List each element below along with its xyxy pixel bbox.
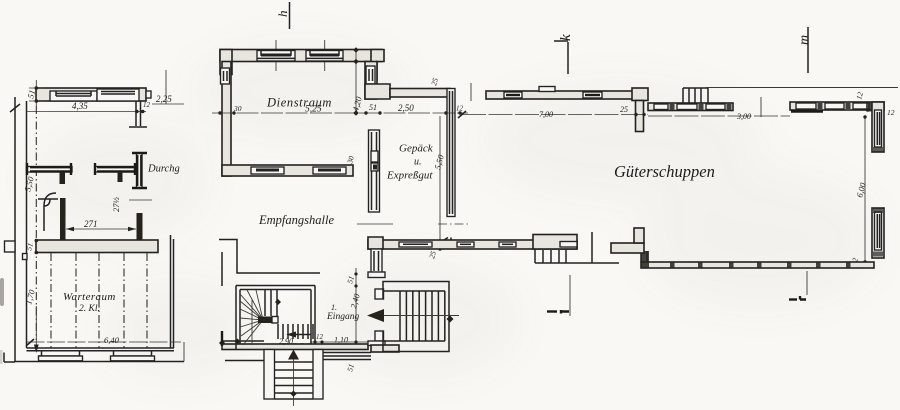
- east stair hall inner lines: [383, 291, 445, 341]
- wall west empfangshalle L: [219, 240, 320, 274]
- front stair node diamond: [290, 391, 296, 397]
- svg-text:30: 30: [233, 104, 242, 113]
- wall north band dienstraum: [220, 50, 382, 62]
- wall north gepaeck band: [390, 89, 450, 98]
- shadow line under band: [791, 110, 823, 112]
- svg-text:2,50: 2,50: [398, 103, 414, 113]
- dimension vertical 5,50 gepaeck: [439, 116, 441, 249]
- node diamond stair room SW: [235, 339, 241, 345]
- window shed NW 1: [504, 92, 522, 98]
- eingang door jamb lower: [375, 331, 384, 341]
- wall south band empfangshalle: [222, 344, 368, 350]
- eingang lower wall: [368, 341, 399, 352]
- svg-text:12: 12: [143, 101, 151, 109]
- wall posts on south band: [670, 262, 851, 268]
- wall corner to gepaeck: [365, 84, 390, 99]
- svg-text:12: 12: [456, 105, 464, 113]
- entrance arrow solid: [367, 309, 384, 322]
- scan smudge left edge: [0, 278, 4, 306]
- svg-text:2. Kl.: 2. Kl.: [79, 304, 100, 314]
- window shed NW 2: [583, 92, 602, 98]
- wall post T1: [60, 172, 66, 184]
- wall west empfangshalle lower: [221, 252, 223, 286]
- wall southwest corner: [4, 352, 15, 362]
- door swing symbol: [44, 193, 56, 231]
- tick slash 6,40 left: [26, 339, 34, 346]
- scan mottling: [30, 40, 880, 380]
- shed north band east of pier: [648, 103, 733, 111]
- section marker 1 bottom left: [547, 275, 570, 316]
- dimension extension line right: [165, 70, 167, 104]
- NE corner block: [866, 103, 884, 112]
- window top-left W2: [97, 89, 139, 101]
- wall notch top right: [146, 91, 151, 98]
- dimension line 6,40: [27, 341, 182, 343]
- wall northwest corner block: [220, 50, 232, 75]
- window empf south 1: [399, 242, 432, 247]
- eingang door jamb upper: [375, 289, 384, 299]
- upper flight risers: [265, 290, 277, 320]
- platform edge lines: [566, 232, 619, 263]
- wall west gepaeck corridor: [369, 130, 380, 212]
- wall south band east with windows: [368, 240, 577, 249]
- pier T shed: [632, 88, 648, 132]
- pier L at shed SW: [611, 228, 644, 253]
- svg-text:u.: u.: [414, 157, 422, 168]
- wall west outer line: [14, 97, 16, 352]
- dimension arrow down to wall: [35, 306, 37, 348]
- window bench south 2: [111, 351, 155, 361]
- eingang upper wall: [368, 249, 385, 278]
- wall northeast corner step: [371, 50, 384, 81]
- svg-text:Expreßgut: Expreßgut: [386, 170, 433, 182]
- dimension 7,00 line: [462, 114, 648, 116]
- svg-text:Eingang: Eingang: [326, 312, 359, 322]
- east stair risers: [400, 291, 445, 341]
- dimension vertical eingang: [345, 268, 362, 342]
- shed north band east segment: [790, 102, 884, 110]
- svg-text:6,40: 6,40: [104, 335, 120, 345]
- dimension tick: [760, 97, 762, 117]
- shed south wall long band: [641, 262, 874, 268]
- svg-text:2,90: 2,90: [279, 337, 293, 346]
- stair room enclosure walls: [236, 286, 315, 350]
- svg-text:25: 25: [620, 105, 628, 114]
- axis line B: [75, 253, 77, 348]
- section marker h top: [275, 2, 290, 29]
- platform steps comb: [683, 88, 708, 103]
- dimension line 4,35: [27, 111, 147, 113]
- section marker 1 bottom right: [789, 271, 807, 300]
- lower flight risers comb: [278, 324, 313, 339]
- svg-text:Warteraum: Warteraum: [63, 291, 116, 303]
- svg-text:51: 51: [369, 103, 377, 112]
- wall post right: [137, 213, 143, 241]
- window bench south 1: [39, 351, 83, 361]
- svg-text:271: 271: [84, 219, 98, 229]
- window empf south 2: [457, 242, 474, 247]
- wall east band with window: [365, 62, 377, 100]
- tick slash top: [10, 104, 20, 112]
- wall vertical end durchgang: [132, 153, 147, 188]
- east edge tick: [183, 342, 185, 362]
- dashed door opening stair room: [279, 343, 314, 345]
- svg-text:Güterschuppen: Güterschuppen: [614, 162, 715, 181]
- window east wall: [366, 66, 375, 84]
- SW corner block shed: [641, 251, 649, 268]
- wall post T2: [118, 172, 123, 182]
- dimension vertical 4,20: [350, 47, 364, 116]
- jamb ticks: [444, 238, 451, 241]
- wall stub below top wall: [129, 101, 147, 127]
- svg-text:1.: 1.: [331, 303, 337, 312]
- dots NE: [866, 108, 869, 111]
- chain dots: [218, 111, 221, 114]
- exterior front stair right sidewall: [313, 350, 323, 400]
- axis line D: [123, 253, 125, 348]
- wall pier west bump: [5, 241, 16, 252]
- svg-text:Dienstraum: Dienstraum: [266, 96, 332, 110]
- svg-text:m: m: [797, 35, 812, 45]
- small square fixture: [23, 254, 28, 260]
- left end tick: [470, 83, 472, 101]
- side steps right of front stair: [323, 353, 371, 360]
- up arrow front stair: [288, 350, 299, 360]
- window south W2: [313, 167, 346, 174]
- wall band above warteraum: [36, 240, 158, 253]
- svg-text:Durchg: Durchg: [147, 164, 180, 175]
- east stair hall outline: [383, 282, 449, 352]
- node diamond at west wall: [219, 340, 225, 346]
- wall west band with window: [222, 62, 231, 177]
- shed north band west segment: [486, 91, 636, 99]
- wall post middle: [60, 198, 66, 240]
- svg-text:4,35: 4,35: [72, 101, 88, 111]
- wall top band: [36, 88, 146, 101]
- window south W1: [251, 167, 284, 174]
- node diamond upper flight: [275, 299, 281, 305]
- window top-left W1: [50, 91, 97, 101]
- wall east warteraum: [171, 235, 174, 348]
- dimension chain y113: [212, 112, 468, 114]
- dimension line below stair: [310, 341, 375, 343]
- svg-text:h: h: [275, 11, 290, 18]
- clerestory bump: [539, 87, 555, 92]
- exterior steps below band: [535, 249, 566, 263]
- section marker k: [554, 34, 574, 74]
- east stair center line: [384, 315, 459, 317]
- axis line C: [98, 253, 100, 348]
- rear platform edge line: [706, 87, 898, 89]
- svg-text:3,00: 3,00: [736, 112, 751, 121]
- axis line A: [50, 253, 52, 348]
- short line right of 27: [129, 199, 152, 201]
- shed east wall upper segment: [872, 102, 884, 152]
- terrace edge left: [225, 360, 264, 362]
- window blocks on band: [654, 104, 732, 110]
- windows on east segment: [796, 103, 869, 109]
- dash line below gepaeck: [357, 223, 393, 225]
- direction arrow lower flight: [286, 332, 311, 338]
- svg-text:Empfangshalle: Empfangshalle: [258, 213, 334, 227]
- dimension 2,25 segment: [152, 103, 184, 105]
- axis line E: [146, 253, 148, 348]
- landing dark block: [258, 317, 278, 324]
- svg-text:12: 12: [887, 108, 895, 117]
- svg-text:12: 12: [316, 333, 324, 341]
- dimension 271: [66, 219, 136, 231]
- east stair node diamond: [447, 316, 454, 323]
- wall step up left end: [368, 237, 383, 249]
- window north W1: [257, 51, 295, 62]
- door box 1 on gepaeck wall: [371, 151, 378, 162]
- dimension 51 top-left: [25, 80, 44, 106]
- wall west inner line: [26, 101, 28, 348]
- svg-text:27½: 27½: [111, 197, 121, 213]
- svg-text:2,25: 2,25: [156, 94, 172, 104]
- wall south double line: [27, 348, 175, 351]
- wall band raised right end: [533, 235, 577, 250]
- wall stub west dark: [221, 331, 223, 346]
- front stair center line: [293, 350, 295, 406]
- wall durchgang segment 2: [95, 163, 136, 175]
- svg-text:7,00: 7,00: [539, 110, 553, 119]
- front stair treads: [275, 362, 314, 399]
- door box 2 on gepaeck wall: [371, 163, 378, 171]
- dimension node: [438, 239, 441, 242]
- svg-text:Gepäck: Gepäck: [399, 143, 434, 155]
- section marker m: [797, 27, 812, 73]
- window north W2: [306, 51, 343, 62]
- window cut line 2: [324, 40, 326, 71]
- wall durchgang segment 1: [27, 163, 73, 175]
- shed east wall lower segment: [872, 208, 884, 258]
- svg-text:k: k: [558, 34, 574, 41]
- window in raised band: [560, 242, 577, 248]
- window empf south 3: [499, 242, 516, 247]
- dimension vertical east 6,00: [849, 115, 868, 266]
- window west wall: [221, 68, 230, 84]
- wall east gepaeck corridor: [447, 89, 455, 217]
- winder stair fan lines: [240, 290, 263, 345]
- wall south band dienstraum: [222, 165, 353, 176]
- axis dash-dot west: [35, 106, 37, 340]
- ground line south: [15, 361, 184, 363]
- window cut line 1: [275, 40, 277, 71]
- svg-text:1,10: 1,10: [334, 336, 348, 345]
- exterior front stair left sidewall: [264, 350, 275, 400]
- wall south band step left of stair: [222, 340, 264, 342]
- dimension node dots: [135, 110, 139, 114]
